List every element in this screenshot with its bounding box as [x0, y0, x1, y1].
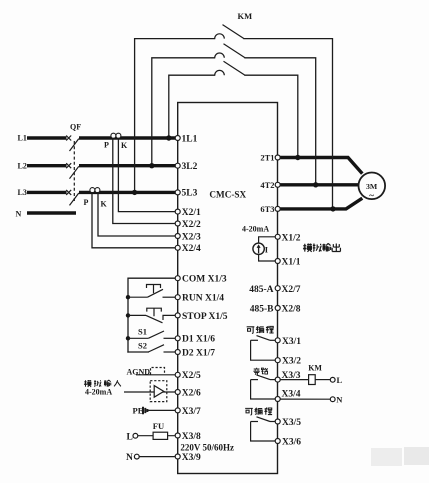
fuse FU [153, 432, 168, 439]
svg-text:~: ~ [369, 191, 374, 201]
wire L2 supply segment [27, 164, 67, 167]
svg-text:X2/1: X2/1 [182, 208, 201, 218]
svg-text:S2: S2 [138, 341, 147, 351]
junction 4T2 / KM bypass [313, 182, 318, 187]
svg-text:L1: L1 [18, 134, 27, 143]
svg-text:QF: QF [70, 123, 81, 132]
wire L3 to 5L3 [79, 191, 178, 194]
terminal N supply [134, 454, 139, 459]
KM contact 3 blade [224, 61, 246, 75]
PE wire [148, 409, 175, 411]
KM contact 2 hump [215, 53, 225, 58]
svg-text:X3/8: X3/8 [182, 432, 201, 442]
QF breaker [66, 136, 79, 206]
pushbutton STOP [128, 314, 146, 316]
terminal X2/8 485-B [275, 306, 280, 311]
relay contact X3/3-X3/4 bypass [251, 375, 336, 402]
label 可编程 programmable 2 [245, 408, 272, 415]
terminal L (KM coil) [330, 377, 335, 382]
op-amp analog input buffer [154, 386, 164, 398]
svg-text:P: P [104, 141, 109, 150]
svg-text:4-20mA: 4-20mA [85, 388, 112, 397]
junction 5L3 / KM riser [132, 190, 137, 195]
relay contact X3/1-X3/2 [251, 336, 276, 361]
riser 1L1 to KM contact 3 [169, 75, 215, 138]
terminal 3L2 [175, 163, 180, 168]
svg-text:X3/6: X3/6 [282, 437, 301, 447]
svg-text:2T1: 2T1 [260, 153, 274, 163]
svg-text:FU: FU [153, 421, 164, 431]
terminal 4T2 [275, 182, 280, 187]
svg-text:4-20mA: 4-20mA [242, 224, 269, 233]
junction dots [126, 135, 336, 340]
svg-text:X2/4: X2/4 [182, 244, 201, 254]
svg-text:X2/7: X2/7 [282, 285, 301, 295]
terminal X2/3 [175, 234, 180, 239]
svg-text:D2 X1/7: D2 X1/7 [182, 348, 215, 358]
svg-text:X1/1: X1/1 [282, 258, 301, 268]
terminal X2/6 [175, 390, 180, 395]
QF pole 1 contact x [66, 136, 71, 141]
wire 4T2 to motor [278, 183, 359, 186]
KM contactor contacts [215, 25, 245, 76]
N power row [139, 456, 175, 458]
analog input wire + amp [124, 391, 175, 393]
QF pole 2 contact x [66, 163, 71, 168]
QF pole 1 blade [70, 139, 79, 151]
text labels latin [16, 11, 344, 463]
svg-text:X3/3: X3/3 [282, 371, 301, 381]
terminal X3/9 [175, 454, 180, 459]
wire CT-P L1 to X2/2 [113, 138, 176, 224]
QF pole 3 contact x [66, 190, 71, 195]
QF pole 2 blade [70, 166, 79, 178]
fuse FU row [138, 435, 176, 437]
terminal X2/1 [175, 209, 180, 214]
current source 4-20mA [253, 237, 278, 261]
wire KM contact 3 to 2T1 [245, 75, 298, 157]
pushbutton RUN [128, 296, 148, 298]
main block CMC-SX outline [178, 103, 278, 474]
terminal L supply [133, 433, 138, 438]
terminal circles right edge [275, 155, 280, 444]
wire 2T1 to motor [278, 158, 363, 174]
ground symbol PE [143, 407, 147, 414]
svg-text:485-B: 485-B [250, 305, 274, 315]
KM coil circuit [280, 379, 309, 381]
terminal X3/2 [275, 358, 280, 363]
QF pole 3 blade [70, 193, 79, 205]
svg-text:X3/1: X3/1 [282, 337, 301, 347]
svg-text:I: I [265, 244, 269, 254]
svg-text:N: N [336, 395, 343, 405]
thick power lines [27, 138, 362, 213]
svg-text:K: K [101, 200, 108, 209]
thin wires [92, 39, 333, 352]
svg-text:3L2: 3L2 [182, 162, 198, 172]
terminal X3/3 [275, 377, 280, 382]
wire KM contact 2 to 4T2 [245, 58, 316, 185]
switch S2 [148, 345, 164, 352]
wire S2 lead [128, 351, 148, 353]
junction 2T1 / KM bypass [295, 155, 300, 160]
X3/4 to N [280, 398, 330, 400]
svg-text:N: N [126, 453, 133, 463]
svg-text:X1/2: X1/2 [282, 233, 301, 243]
terminal X1/3 COM [175, 276, 180, 281]
terminal X3/5 [275, 419, 280, 424]
motor 3M [359, 173, 386, 201]
svg-text:CMC-SX: CMC-SX [209, 190, 246, 200]
junction 3L2 / KM riser [149, 163, 154, 168]
svg-text:6T3: 6T3 [260, 204, 274, 214]
svg-text:D1 X1/6: D1 X1/6 [182, 335, 215, 345]
svg-text:X2/2: X2/2 [182, 220, 201, 230]
KM contact 1 blade [223, 25, 245, 39]
terminal X3/1 [275, 338, 280, 343]
terminal X3/7 [175, 408, 180, 413]
terminal X1/5 STOP [175, 313, 180, 318]
svg-text:STOP X1/5: STOP X1/5 [182, 312, 228, 322]
svg-text:L: L [337, 375, 343, 385]
terminal X1/1 [275, 259, 280, 264]
CT sensor L3 [90, 188, 100, 193]
wire KM contact 1 to 6T3 [244, 39, 333, 209]
junction 1L1 / KM riser [166, 135, 171, 140]
label 模拟输出 analog output [303, 243, 340, 251]
terminal 5L3 [175, 190, 180, 195]
wire N supply segment [27, 211, 76, 214]
junction COM bus / STOP [126, 313, 130, 317]
riser 3L2 to KM contact 2 [152, 58, 215, 166]
wire 6T3 to motor [278, 198, 363, 209]
wire CT-K L3 to X2/3 [98, 192, 175, 236]
KM contact 3 hump [215, 70, 225, 75]
terminal X3/4 [275, 397, 280, 402]
terminal X2/5 [175, 372, 180, 377]
terminal X1/7 D2 [175, 350, 180, 355]
svg-text:485-A: 485-A [249, 285, 273, 295]
svg-text:KM: KM [308, 364, 322, 373]
terminal X3/6 [275, 439, 280, 444]
svg-text:X2/8: X2/8 [282, 305, 301, 315]
terminal X1/6 D1 [175, 336, 180, 341]
wire L3 supply segment [27, 191, 67, 194]
junction 6T3 / KM bypass [330, 206, 335, 211]
svg-text:L3: L3 [18, 188, 27, 197]
svg-text:K: K [121, 141, 128, 150]
svg-text:RUN X1/4: RUN X1/4 [182, 294, 224, 304]
QF linkage [73, 141, 75, 201]
KM contact 1 hump [215, 34, 225, 39]
svg-text:COM X1/3: COM X1/3 [182, 275, 227, 285]
terminal X2/4 [175, 245, 180, 250]
svg-text:X2/6: X2/6 [182, 388, 201, 398]
svg-text:1L1: 1L1 [182, 134, 198, 144]
terminal 6T3 [275, 206, 280, 211]
svg-text:X3/2: X3/2 [282, 357, 301, 367]
svg-text:P: P [84, 198, 89, 207]
svg-text:5L3: 5L3 [182, 189, 198, 199]
svg-text:L2: L2 [18, 161, 27, 170]
terminal X2/2 [175, 221, 180, 226]
terminal X3/8 [175, 433, 180, 438]
terminal 1L1 [175, 136, 180, 141]
relay contact X3/5-X3/6 [251, 417, 276, 441]
terminal circles left edge [175, 136, 180, 460]
wire COM bus [128, 278, 175, 352]
watermark rectangle 1 [371, 448, 402, 466]
wire CT-P L3 to X2/4 [92, 192, 175, 247]
svg-text:N: N [16, 209, 22, 218]
riser 5L3 to KM contact 1 [135, 39, 215, 193]
svg-text:4T2: 4T2 [260, 180, 274, 190]
terminal N (KM coil) [330, 397, 335, 402]
junction COM bus / RUN [126, 295, 130, 299]
svg-text:X2/3: X2/3 [182, 232, 201, 242]
svg-text:X3/4: X3/4 [282, 390, 301, 400]
KM contact 2 blade [224, 44, 246, 58]
wire L1 to 1L1 [79, 136, 178, 139]
switch S1 [128, 337, 148, 339]
label 可编程 programmable 1 [247, 326, 274, 333]
label 旁路 bypass [253, 368, 267, 375]
terminal 2T1 [275, 155, 280, 160]
wire CT-K L1 to X2/1 [118, 138, 175, 212]
CT sensor L1 [111, 133, 121, 138]
terminal X1/2 [275, 234, 280, 239]
AGND wire [124, 368, 175, 460]
svg-text:AGND: AGND [127, 367, 151, 376]
wire L2 to 3L2 [79, 164, 178, 167]
terminal X1/4 RUN [175, 295, 180, 300]
svg-text:PE: PE [133, 405, 144, 415]
label 模拟输入 analog input [84, 380, 121, 387]
svg-text:X2/5: X2/5 [182, 371, 201, 381]
svg-text:220V 50/60Hz: 220V 50/60Hz [180, 442, 234, 452]
svg-text:X3/5: X3/5 [282, 418, 301, 428]
contactor coil KM [309, 375, 316, 385]
wire L1 supply segment [27, 136, 67, 139]
svg-text:S1: S1 [138, 327, 147, 337]
svg-text:KM: KM [238, 11, 253, 21]
left control contacts [128, 285, 175, 353]
svg-text:L: L [127, 432, 133, 442]
svg-text:X3/7: X3/7 [182, 407, 201, 417]
svg-text:X3/9: X3/9 [182, 453, 201, 463]
terminal X2/7 485-A [275, 286, 280, 291]
watermark rectangle 2 [404, 447, 429, 465]
junction COM bus / S1 [126, 336, 130, 340]
